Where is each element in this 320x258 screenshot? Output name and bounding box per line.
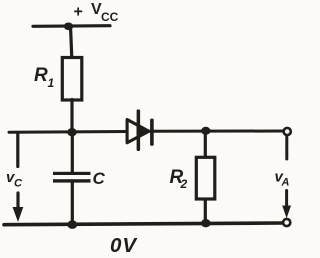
svg-text:0V: 0V bbox=[110, 234, 138, 257]
svg-text:1: 1 bbox=[48, 76, 55, 90]
svg-text:+: + bbox=[74, 4, 83, 21]
svg-text:C: C bbox=[93, 169, 106, 188]
svg-text:C: C bbox=[14, 178, 23, 190]
svg-text:2: 2 bbox=[180, 177, 188, 191]
svg-text:CC: CC bbox=[101, 10, 119, 24]
svg-text:A: A bbox=[281, 177, 290, 189]
svg-text:R: R bbox=[34, 65, 48, 86]
